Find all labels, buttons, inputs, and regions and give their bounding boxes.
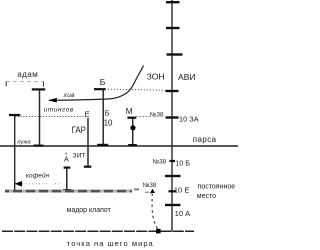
svg-text:точка на шего мира: точка на шего мира xyxy=(67,239,154,248)
svg-text:парса: парса xyxy=(193,135,217,144)
tick y28 xyxy=(166,27,180,29)
kofeyn arrowhead left xyxy=(15,181,23,187)
small tick y161 xyxy=(170,160,176,162)
tick y117 xyxy=(166,116,179,118)
tick y54 xyxy=(167,53,183,55)
tick y176 xyxy=(165,175,181,177)
svg-text:адам: адам xyxy=(17,70,38,79)
M-post top bar xyxy=(127,117,136,119)
khiv arrowhead left xyxy=(48,98,57,103)
road fading dots xyxy=(134,189,139,191)
M-post dot xyxy=(130,125,135,130)
svg-text:^: ^ xyxy=(65,152,68,158)
T-post top bar xyxy=(32,88,45,90)
svg-text:кофейн: кофейн xyxy=(26,172,50,180)
svg-text:М: М xyxy=(126,107,133,116)
B-post top bar xyxy=(94,88,106,90)
E-post foot bar xyxy=(84,166,92,168)
E-post vertical x88 xyxy=(87,118,89,167)
small tick y191 xyxy=(169,190,177,192)
bottom horizontal line xyxy=(2,230,194,232)
svg-text:хив: хив xyxy=(63,92,76,99)
khiv arrow curve xyxy=(49,66,144,101)
dashed road xyxy=(5,190,132,193)
A-post foot bar xyxy=(63,189,71,191)
svg-text:ЗОН: ЗОН xyxy=(147,72,165,82)
tick y2 xyxy=(166,1,180,3)
svg-text:АВИ: АВИ xyxy=(178,72,196,82)
svg-text:Б: Б xyxy=(100,77,106,87)
left vertical line xyxy=(14,115,16,191)
dotted line from M-post to no.38 xyxy=(137,116,151,118)
dotted shelf line y117 xyxy=(15,115,88,117)
junction square dot xyxy=(156,229,161,234)
T-post foot bar xyxy=(34,145,44,147)
main vertical track line xyxy=(171,0,173,232)
svg-text:постоянное: постоянное xyxy=(198,184,236,191)
svg-text:место: место xyxy=(197,193,216,200)
svg-text:лужа: лужа xyxy=(16,140,31,146)
svg-text:10 Б: 10 Б xyxy=(175,159,190,168)
arrowhead up xyxy=(150,189,155,194)
svg-text:№38: №38 xyxy=(150,111,164,118)
M-post foot bar xyxy=(128,144,137,146)
svg-text:ЗИТ: ЗИТ xyxy=(73,153,86,160)
A-post top bar xyxy=(64,167,71,169)
M-post vertical x128 xyxy=(132,118,134,145)
svg-text:10: 10 xyxy=(104,119,113,128)
left vertical top bar xyxy=(9,114,20,116)
dotted line from B-post to main line xyxy=(108,89,166,90)
svg-text:10 А: 10 А xyxy=(175,209,192,218)
svg-text:итингов: итингов xyxy=(44,106,74,113)
svg-text:10 ЗА: 10 ЗА xyxy=(179,115,199,124)
svg-text:10 Е: 10 Е xyxy=(174,186,189,195)
A-post vertical x67.5 xyxy=(66,168,68,192)
svg-text:№38: №38 xyxy=(152,159,166,166)
T-post vertical x38.5 xyxy=(39,89,41,146)
dashed bracket under adam xyxy=(6,81,43,86)
svg-text:№38: №38 xyxy=(143,182,157,189)
B-post vertical x102.5 xyxy=(102,89,104,145)
tick y205 xyxy=(165,204,181,206)
full horizontal line (parsa street) xyxy=(0,145,238,147)
svg-text:Е: Е xyxy=(85,109,90,118)
kofeyn dotted line xyxy=(22,183,48,185)
svg-text:Б: Б xyxy=(105,109,110,118)
dashed curved arrow from dot up to no.38 xyxy=(152,194,157,229)
svg-text:ГАР: ГАР xyxy=(72,125,87,136)
svg-text:мадор клапот: мадор клапот xyxy=(67,207,112,214)
B-post foot bar xyxy=(97,144,108,146)
tick y91 xyxy=(166,90,179,92)
